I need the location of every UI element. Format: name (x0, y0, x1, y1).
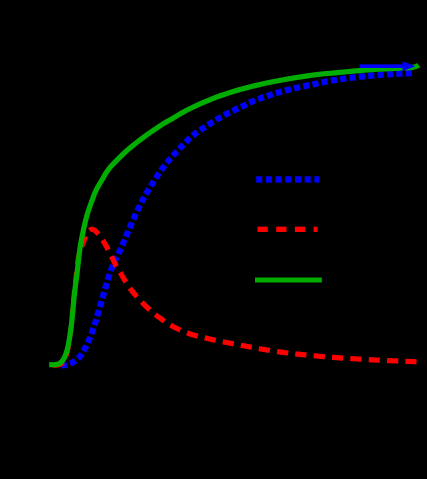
legend sample green solid (255, 278, 322, 283)
legend sample red dashed (258, 227, 318, 232)
green solid curve (49, 65, 418, 365)
legend sample blue dotted (256, 176, 319, 182)
red dashed curve (51, 229, 417, 365)
blue dotted curve (61, 73, 412, 366)
blue arrow annotation (360, 61, 416, 71)
